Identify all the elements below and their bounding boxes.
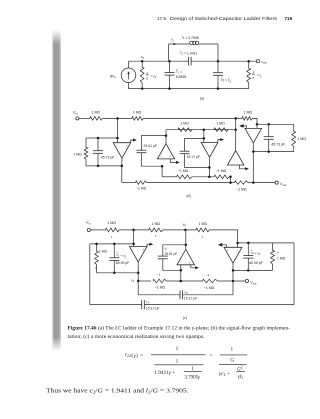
node v1 (c) <box>131 278 139 283</box>
junction B3 input <box>236 242 239 245</box>
wire op1 input horizontal <box>86 137 118 139</box>
resistor 1Mohm right (c) <box>196 222 210 239</box>
junction op3 input <box>203 137 206 140</box>
wire <box>167 280 203 282</box>
svg-text:tation; (c) a more economical: tation; (c) a more economical realizatio… <box>68 335 205 340</box>
wire op5 input stub <box>256 124 258 128</box>
svg-text:−1 MΩ: −1 MΩ <box>178 169 189 173</box>
junction op5 input <box>256 123 259 126</box>
junction mid path op3 <box>208 176 211 179</box>
wire op4 input column (rail1 to apex) <box>235 118 237 150</box>
wire bottom of op1 block <box>86 165 122 167</box>
junction cap bottom (c right) <box>247 269 250 272</box>
svg-text:1 MΩ: 1 MΩ <box>180 121 189 125</box>
wire bottom rail (a) <box>129 88 249 90</box>
wire cap loop corner down to mid path <box>161 166 163 177</box>
wire rail2 <box>166 129 236 131</box>
terminal Vout (b) <box>275 181 286 187</box>
svg-text:Thus we have c2/G = 1.9411 and: Thus we have c2/G = 1.9411 and l2/G = 3.… <box>46 388 189 394</box>
resistor 1Mohm rail2 left <box>178 121 192 131</box>
resistor 1Mohm feedback op1 <box>73 138 88 166</box>
resistor rL <box>247 60 263 89</box>
capacitor 45.73pF feedback op5 <box>264 124 285 151</box>
op-amp A3 <box>201 143 218 158</box>
junction <box>95 243 98 246</box>
wire op1 input column (c) <box>133 230 135 247</box>
op-amp A2 output arrow <box>170 159 180 164</box>
svg-text:1 MΩ: 1 MΩ <box>152 222 161 226</box>
capacitor c1p 15.17pF (outer loop) <box>90 300 294 311</box>
svg-text:−1 MΩ: −1 MΩ <box>216 169 227 173</box>
wire op3 apex to mid path <box>208 168 210 177</box>
svg-text:γl2: γl2 <box>238 375 243 380</box>
svg-text:5.8535: 5.8535 <box>176 75 187 79</box>
wire rail1 to right <box>143 117 242 119</box>
terminal Vout (c) <box>245 279 256 285</box>
wire rail to op3 corner <box>210 230 238 247</box>
svg-text:1.9411γ +: 1.9411γ + <box>154 370 175 376</box>
wire B3 apex down <box>232 263 234 281</box>
resistor 1Mohm rail1 second <box>132 110 144 120</box>
wire <box>120 229 149 231</box>
node v2 <box>217 60 220 90</box>
junction top rail op1 (c) <box>132 229 135 232</box>
resistor -1Mohm rail B left <box>136 181 147 191</box>
svg-text:Figure 17.46 (a) The LC ladde: Figure 17.46 (a) The LC ladder of Exampl… <box>68 327 291 332</box>
resistor rS <box>140 61 156 88</box>
capacitor c3+c2 60.90pF (c right) <box>243 243 262 271</box>
wire op5 bottom to cap/load bottoms <box>253 151 293 153</box>
svg-text:1: 1 <box>176 346 179 352</box>
op-amp A5 output arrow (left) <box>239 124 246 128</box>
svg-text:60.90 pF: 60.90 pF <box>249 261 263 265</box>
terminal Vin (b) <box>73 111 79 120</box>
junction rail2 op4 column <box>234 128 237 131</box>
junction rail B op5 column <box>252 181 255 184</box>
svg-text:1: 1 <box>176 359 179 365</box>
svg-text:29.61 pF: 29.61 pF <box>143 144 157 148</box>
resistor 1Mohm rail2 right <box>214 121 228 131</box>
svg-text:−1 MΩ: −1 MΩ <box>204 286 215 290</box>
svg-text:c1 =: c1 = <box>176 70 182 75</box>
op-amp A5 <box>245 128 262 143</box>
wire rail B to Vout <box>248 182 275 184</box>
wire block bottom (c left) <box>97 272 139 274</box>
svg-text:1 MΩ: 1 MΩ <box>244 110 253 114</box>
junction op1 bottom <box>121 165 124 168</box>
current source gvin <box>110 61 136 88</box>
wire <box>103 117 132 119</box>
junction cap/apex <box>165 134 168 137</box>
junction rail B mid <box>229 181 232 184</box>
junction mid path bend <box>229 176 232 179</box>
capacitor c2 (series) <box>180 50 218 65</box>
svg-text:45.73 pF: 45.73 pF <box>101 156 115 160</box>
svg-text:1 MΩ: 1 MΩ <box>133 110 142 114</box>
svg-text:45.73 pF: 45.73 pF <box>271 142 285 146</box>
svg-text:1 MΩ: 1 MΩ <box>92 110 101 114</box>
wire op1 apex to bottom <box>121 158 123 166</box>
equation t22 <box>125 346 247 380</box>
wire right block bottom <box>233 269 273 271</box>
capacitor c3 <box>213 61 232 88</box>
wire op5 apex down <box>252 143 254 152</box>
wire op2 apex stub to rail2 <box>165 130 167 144</box>
resistor -1Mohm (c) mid right <box>203 273 218 290</box>
op-amp B2 <box>177 249 195 264</box>
resistor 1Mohm load (c) <box>271 243 286 271</box>
junction op1 input <box>116 137 119 140</box>
op-amp A4 output arrow <box>240 165 249 170</box>
wire op1 input column <box>117 118 119 142</box>
node v1 <box>141 55 145 90</box>
svg-text:1: 1 <box>230 346 233 352</box>
svg-text:1 MΩ: 1 MΩ <box>277 256 286 260</box>
wire top rail (c) <box>90 229 105 231</box>
wire <box>163 229 196 231</box>
svg-text:−1 MΩ: −1 MΩ <box>155 285 166 289</box>
wire rail B middle <box>147 182 235 184</box>
figure caption <box>68 327 291 341</box>
wire B2 apex stub to rail <box>185 230 187 250</box>
op-amp B1 <box>130 247 148 262</box>
wire op3 input column <box>203 130 205 143</box>
resistor 1Mohm input (c) <box>106 221 120 239</box>
op-amp B3 <box>224 247 242 263</box>
terminal Vin (c) <box>86 221 91 232</box>
svg-text:1 MΩ: 1 MΩ <box>99 249 108 253</box>
svg-text:1 MΩ: 1 MΩ <box>297 137 306 141</box>
wire op5 top to cap/load <box>257 123 294 125</box>
junction op5 apex <box>252 150 255 153</box>
svg-text:1 MΩ: 1 MΩ <box>216 121 225 125</box>
junction cap top right <box>267 123 270 126</box>
resistor 1Mohm load (b) <box>292 124 306 151</box>
resistor 1Mohm mid (c) <box>149 222 163 237</box>
inductor l2 branch <box>169 35 218 61</box>
resistor -1Mohm (c) mid left <box>153 273 167 290</box>
junction B2 column loop <box>180 269 183 272</box>
capacitor c1 <box>165 60 187 90</box>
outer feedback loop wire <box>89 244 91 305</box>
svg-text:29.61 pF: 29.61 pF <box>165 252 178 256</box>
op-amp A2 <box>157 144 174 159</box>
wire down to rail B <box>121 166 123 183</box>
capacitor 45.73pF feedback op1 <box>93 137 114 167</box>
wire elbow to op5 input <box>252 118 257 124</box>
resistor 1Mohm input <box>90 110 103 120</box>
junction op1 input (c) <box>132 243 135 246</box>
node v2 (c) <box>183 222 187 231</box>
junction B2 cap loop <box>185 244 188 247</box>
svg-text:1 MΩ: 1 MΩ <box>199 222 208 226</box>
wire mid path start <box>162 176 177 178</box>
svg-text:17.9: 17.9 <box>157 16 166 21</box>
svg-text:15.17 pF: 15.17 pF <box>187 155 201 159</box>
junction op3 apex <box>208 166 211 169</box>
junction rail1 <box>116 117 119 120</box>
wire top rail (a) <box>129 60 186 62</box>
junction rail1 op4 column <box>234 117 237 120</box>
svg-text:−1: −1 <box>157 273 161 277</box>
svg-text:−1 MΩ: −1 MΩ <box>236 188 247 192</box>
svg-text:(c): (c) <box>183 316 187 320</box>
svg-text:(b): (b) <box>186 194 190 198</box>
op-amp A1 <box>113 143 131 158</box>
page header <box>157 16 293 21</box>
junction B2 column rail <box>180 280 183 283</box>
wire rail B <box>122 182 136 184</box>
capacitor 15.17pF feedback op3 <box>180 138 210 167</box>
svg-text:Design of Switched-Capacitor L: Design of Switched-Capacitor Ladder Filt… <box>170 16 278 21</box>
wire mid path <box>192 176 215 178</box>
svg-text:l2 = 3.7905: l2 = 3.7905 <box>182 35 199 40</box>
resistor -1Mohm mid right <box>214 169 229 179</box>
svg-text:719: 719 <box>285 16 293 21</box>
inner feedback loop with c2p 15.17pF <box>138 281 233 301</box>
wire mid path to rail B <box>229 177 230 183</box>
capacitor c1+c2 60.90pF (c left) <box>109 243 129 274</box>
svg-text:=: = <box>210 352 213 358</box>
svg-text:3.7905γ: 3.7905γ <box>184 375 201 380</box>
wire rail to Vout (c) <box>218 280 246 282</box>
op-amp A3 output arrow <box>218 138 224 142</box>
svg-text:15.17 pF: 15.17 pF <box>146 306 160 310</box>
svg-text:G: G <box>230 358 234 364</box>
svg-text:t22(γ) =: t22(γ) = <box>125 352 143 359</box>
wire B2 output column <box>180 265 182 281</box>
wire op3 apex down <box>208 157 210 167</box>
wire middle rail (c) <box>138 280 151 282</box>
junction B3 bottom wire <box>232 269 235 272</box>
capacitor 29.61pF feedback op2 <box>136 136 166 167</box>
op-amp B1 output arrow <box>147 243 153 247</box>
wire B3 input to cap/load <box>238 242 294 244</box>
svg-text:15.17 pF: 15.17 pF <box>184 297 198 301</box>
svg-text:60.90 pF: 60.90 pF <box>116 261 130 265</box>
wire op5 down to rail B <box>252 152 254 183</box>
wire v2 to output <box>218 60 256 62</box>
junction cap top (c right) <box>247 242 250 245</box>
wire op B1 apex down <box>137 262 139 281</box>
scan gutter shadow band <box>52 30 61 351</box>
terminal vout (a) <box>256 60 267 65</box>
svg-text:c2 = 1.9411: c2 = 1.9411 <box>180 50 197 55</box>
capacitor 29.61pF feedback B2 <box>158 245 186 270</box>
junction cap bottom right <box>267 150 270 153</box>
svg-text:1 MΩ: 1 MΩ <box>73 152 82 156</box>
resistor -1Mohm mid left <box>177 169 192 179</box>
wire outer loop right vertical <box>293 243 295 305</box>
svg-text:(a): (a) <box>200 97 204 101</box>
op-amp A4 <box>228 151 244 165</box>
resistor 1Mohm feedback op1 (c) <box>95 244 108 273</box>
resistor -1Mohm rail B right <box>235 181 248 192</box>
junction rail2 op3 <box>203 128 206 131</box>
wire rail1 (b) <box>79 117 90 119</box>
svg-text:−1 MΩ: −1 MΩ <box>136 187 147 191</box>
wire op1 input horizontal (c) <box>90 243 134 245</box>
resistor 1Mohm top right <box>242 110 252 120</box>
op-amp A1 output arrow <box>131 139 137 143</box>
svg-text:1 MΩ: 1 MΩ <box>107 221 116 225</box>
junction cap loop corner <box>161 165 164 168</box>
junction B3 column rail <box>232 280 235 283</box>
op-amp B3 output arrow (left) <box>218 243 227 247</box>
svg-text:−1: −1 <box>206 273 210 277</box>
op-amp B2 output arrow <box>191 265 199 270</box>
junction B1 block bottom <box>137 272 140 275</box>
